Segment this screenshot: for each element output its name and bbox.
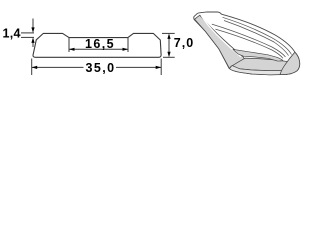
svg-text:35,0: 35,0 (86, 61, 116, 75)
dim 7,0 top arrowhead (167, 33, 170, 39)
dim 35,0 line right part (116, 66, 161, 68)
dim 35,0 left arrowhead (32, 66, 38, 69)
dim 16,5 left extension (68, 38, 70, 52)
dim 7,0 top tick (162, 32, 175, 34)
svg-text:7,0: 7,0 (174, 36, 194, 50)
dim 7,0 bottom tick (163, 56, 175, 58)
dim 16,5 left arrowhead (69, 48, 75, 51)
dim 35,0 right extension (160, 59, 162, 76)
dim 35,0 right arrowhead (156, 66, 162, 69)
3D bar silhouette (194, 12, 300, 75)
dim 1,4 lower arrowhead (31, 37, 34, 43)
3D right end face (gray) (280, 52, 300, 74)
dim 16,5 right arrowhead (123, 48, 129, 51)
dim 7,0 vertical line (168, 36, 170, 55)
3D front chamfer band (gray) (233, 49, 283, 61)
3D left end face highlight sliver (202, 16, 242, 57)
3D front side face (gray) (231, 58, 292, 70)
svg-text:1,4: 1,4 (3, 26, 21, 40)
dim 35,0 line left part (32, 66, 84, 68)
dim 7,0 bottom arrowhead (167, 52, 170, 58)
3D near slope edge pair: lower line (215, 29, 283, 58)
3D far slope edge pair: upper line (223, 17, 292, 54)
dim 1,4 upper arrow line (32, 19, 34, 29)
dim 16,5 right extension (127, 38, 129, 52)
profile cross-section outline (33, 33, 161, 57)
dim 16,5 line (69, 48, 128, 50)
dim 35,0 left extension (31, 59, 33, 76)
3D far slope edge pair: lower line (224, 21, 289, 56)
3D near slope edge pair: upper line (212, 24, 286, 57)
3D left end face (gray band) (195, 15, 245, 68)
dim 1,4 lower arrow line (32, 43, 34, 48)
3D bottom face strip (light gray) (230, 66, 294, 75)
svg-text:16,5: 16,5 (85, 37, 115, 51)
dim 1,4 lower tick (21, 36, 34, 38)
dim 1,4 upper tick (21, 32, 34, 34)
dim 1,4 upper arrowhead (31, 27, 34, 33)
